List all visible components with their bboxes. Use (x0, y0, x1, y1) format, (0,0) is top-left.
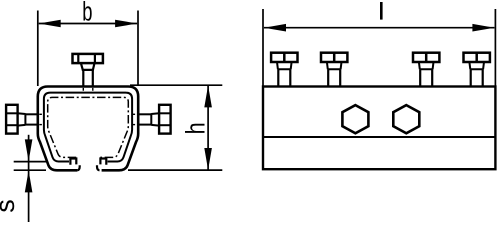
dimension h extension line bottom (128, 169, 222, 171)
top bolt neck (81, 63, 95, 70)
C-profile outer contour (38, 87, 138, 171)
dimension l extension line right (494, 9, 496, 86)
dimension h line (207, 86, 209, 170)
dimension b extension line right (137, 11, 139, 87)
dimension b arrow right (115, 20, 137, 28)
left side bolt facet lines (6, 113, 18, 125)
bolt 2 shaft (328, 69, 340, 86)
right side bolt facet lines (159, 113, 171, 125)
dimension l arrow left (264, 24, 286, 32)
bolt 4 head (464, 53, 490, 62)
bolt 3 neck (419, 62, 434, 69)
dimension h arrow top (204, 85, 212, 107)
bolt 3 shaft (420, 69, 432, 86)
left side bolt head (6, 105, 18, 134)
dimension l label (380, 2, 383, 20)
right bottom lip (97, 159, 106, 171)
left bottom lip (70, 159, 79, 171)
dimension l extension line left (262, 9, 264, 86)
dimension s extension line top (14, 161, 48, 163)
dimension b arrow left (39, 20, 61, 28)
top bolt shaft (83, 70, 93, 87)
svg-text:b: b (82, 0, 92, 26)
bolt 4 shaft (471, 69, 483, 86)
dimension l line (264, 27, 494, 29)
dimension s arrow lower (25, 170, 33, 192)
left side bolt neck (18, 113, 26, 125)
svg-text:h: h (181, 122, 211, 134)
bolt 4 neck (469, 62, 484, 69)
dimension h arrow bottom (204, 148, 212, 170)
bolt 3 head (413, 53, 439, 62)
bolt 1 head (271, 53, 297, 62)
svg-text:s: s (0, 199, 20, 213)
bolt 2 head (321, 53, 347, 62)
dimension s arrow upper (25, 139, 33, 161)
right side bolt shaft (138, 114, 151, 124)
bolt 1 neck (277, 62, 292, 69)
dimension h extension line top (130, 84, 222, 86)
hex nut left (342, 105, 368, 133)
dimension s line (28, 135, 30, 222)
left side bolt hidden thread dashes (39, 114, 43, 124)
top bolt head facet lines (78, 54, 95, 63)
dimension s extension line bottom (14, 169, 46, 171)
right side bolt head (159, 105, 171, 134)
right side bolt hidden thread dashes (133, 114, 137, 124)
C-profile inner contour (44, 93, 132, 162)
dimension l arrow right (472, 24, 494, 32)
body outline (263, 87, 495, 170)
dimension b extension line left (37, 11, 39, 87)
bolt 1 shaft (278, 69, 290, 86)
right side bolt neck (151, 113, 159, 125)
bolt 2 neck (327, 62, 342, 69)
body mid line (263, 136, 495, 138)
top bolt head (73, 54, 103, 63)
top bolt hidden thread dashes (83, 88, 93, 92)
dimension b line (39, 23, 137, 25)
left side bolt shaft (25, 114, 38, 124)
C-profile inner phantom dash-dot contour (48, 97, 129, 157)
hex nut right (393, 105, 419, 133)
